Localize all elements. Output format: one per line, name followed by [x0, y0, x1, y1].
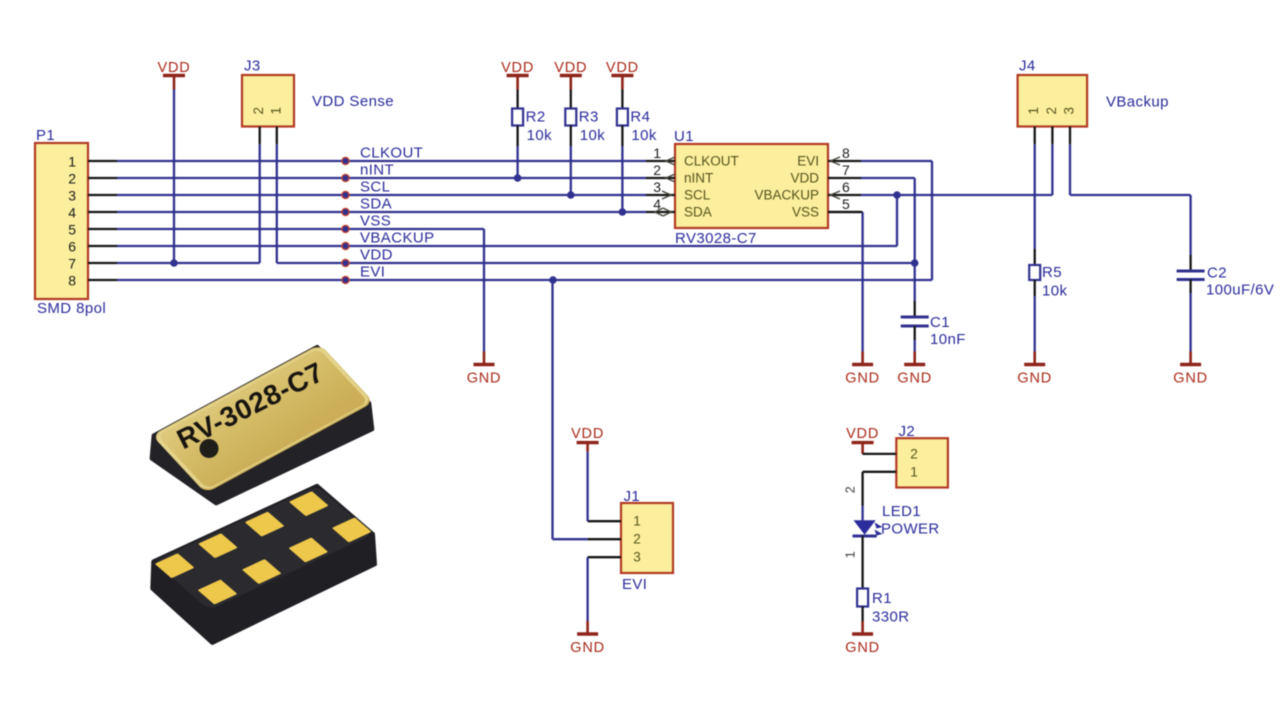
svg-text:J4: J4	[1019, 58, 1036, 75]
svg-text:7: 7	[842, 162, 850, 178]
svg-text:J2: J2	[899, 423, 916, 440]
svg-text:2: 2	[633, 532, 641, 547]
svg-text:GND: GND	[897, 371, 932, 387]
svg-text:R5: R5	[1042, 264, 1062, 281]
svg-text:SDA: SDA	[684, 205, 712, 220]
svg-text:5: 5	[842, 196, 850, 212]
svg-text:VDD: VDD	[554, 60, 587, 76]
svg-text:10k: 10k	[580, 127, 605, 144]
svg-text:VDD: VDD	[790, 171, 819, 186]
svg-text:nINT: nINT	[684, 171, 713, 186]
svg-text:2: 2	[68, 171, 76, 187]
svg-text:VDD: VDD	[606, 60, 639, 76]
svg-text:1: 1	[910, 464, 918, 479]
svg-text:6: 6	[842, 179, 850, 195]
svg-text:1: 1	[653, 145, 661, 161]
svg-text:POWER: POWER	[881, 521, 940, 538]
svg-text:1: 1	[843, 551, 857, 558]
svg-text:R3: R3	[579, 109, 599, 126]
svg-text:EVI: EVI	[622, 576, 647, 593]
svg-text:VBACKUP: VBACKUP	[360, 230, 435, 247]
svg-text:10nF: 10nF	[930, 331, 966, 348]
svg-text:10k: 10k	[631, 127, 656, 144]
svg-text:4: 4	[68, 205, 76, 221]
svg-text:R1: R1	[872, 590, 892, 607]
svg-text:EVI: EVI	[360, 264, 385, 281]
svg-text:VDD: VDD	[846, 426, 879, 442]
svg-text:VDD Sense: VDD Sense	[312, 93, 394, 110]
svg-text:6: 6	[68, 239, 76, 255]
svg-text:10k: 10k	[527, 127, 552, 144]
svg-text:GND: GND	[845, 371, 880, 387]
svg-text:SCL: SCL	[684, 188, 711, 203]
svg-text:VSS: VSS	[360, 213, 391, 230]
svg-text:C1: C1	[930, 314, 950, 331]
svg-text:1: 1	[1026, 107, 1041, 115]
svg-text:nINT: nINT	[360, 162, 394, 179]
svg-text:2: 2	[653, 162, 661, 178]
svg-text:SDA: SDA	[360, 196, 392, 213]
svg-text:GND: GND	[570, 640, 605, 656]
svg-text:J3: J3	[244, 58, 261, 75]
svg-text:10k: 10k	[1042, 283, 1067, 300]
svg-text:3: 3	[68, 188, 76, 204]
svg-text:2: 2	[251, 107, 266, 115]
svg-text:R4: R4	[630, 109, 650, 126]
svg-text:VDD: VDD	[360, 247, 393, 264]
svg-text:1: 1	[269, 107, 284, 115]
svg-text:VBackup: VBackup	[1106, 94, 1169, 111]
svg-text:VSS: VSS	[792, 205, 819, 220]
svg-text:P1: P1	[36, 127, 55, 144]
svg-text:GND: GND	[1017, 371, 1052, 387]
svg-text:3: 3	[653, 179, 661, 195]
svg-text:3: 3	[1062, 107, 1077, 115]
svg-text:GND: GND	[845, 640, 880, 656]
svg-text:1: 1	[68, 154, 76, 170]
svg-text:3: 3	[633, 550, 641, 565]
svg-text:100uF/6V: 100uF/6V	[1206, 282, 1274, 299]
svg-text:8: 8	[68, 273, 76, 289]
svg-text:VBACKUP: VBACKUP	[754, 188, 819, 203]
svg-text:J1: J1	[624, 488, 641, 505]
svg-text:1: 1	[633, 514, 641, 529]
svg-text:RV3028-C7: RV3028-C7	[675, 230, 757, 247]
svg-text:330R: 330R	[872, 609, 909, 626]
svg-text:GND: GND	[1173, 371, 1208, 387]
svg-text:2: 2	[843, 486, 857, 493]
svg-text:2: 2	[1044, 107, 1059, 115]
svg-text:SCL: SCL	[360, 179, 390, 196]
svg-text:EVI: EVI	[797, 154, 819, 169]
svg-text:SMD 8pol: SMD 8pol	[37, 300, 106, 317]
svg-text:CLKOUT: CLKOUT	[360, 145, 423, 162]
svg-text:2: 2	[910, 446, 918, 461]
svg-text:VDD: VDD	[571, 426, 604, 442]
svg-text:5: 5	[68, 222, 76, 238]
svg-text:VDD: VDD	[501, 60, 534, 76]
svg-text:7: 7	[68, 256, 76, 272]
svg-text:VDD: VDD	[157, 60, 190, 76]
svg-text:R2: R2	[526, 109, 546, 126]
svg-text:U1: U1	[674, 128, 694, 145]
svg-text:GND: GND	[467, 371, 502, 387]
svg-text:CLKOUT: CLKOUT	[684, 154, 739, 169]
svg-text:8: 8	[842, 145, 850, 161]
svg-text:C2: C2	[1207, 265, 1227, 282]
svg-text:LED1: LED1	[882, 503, 921, 520]
